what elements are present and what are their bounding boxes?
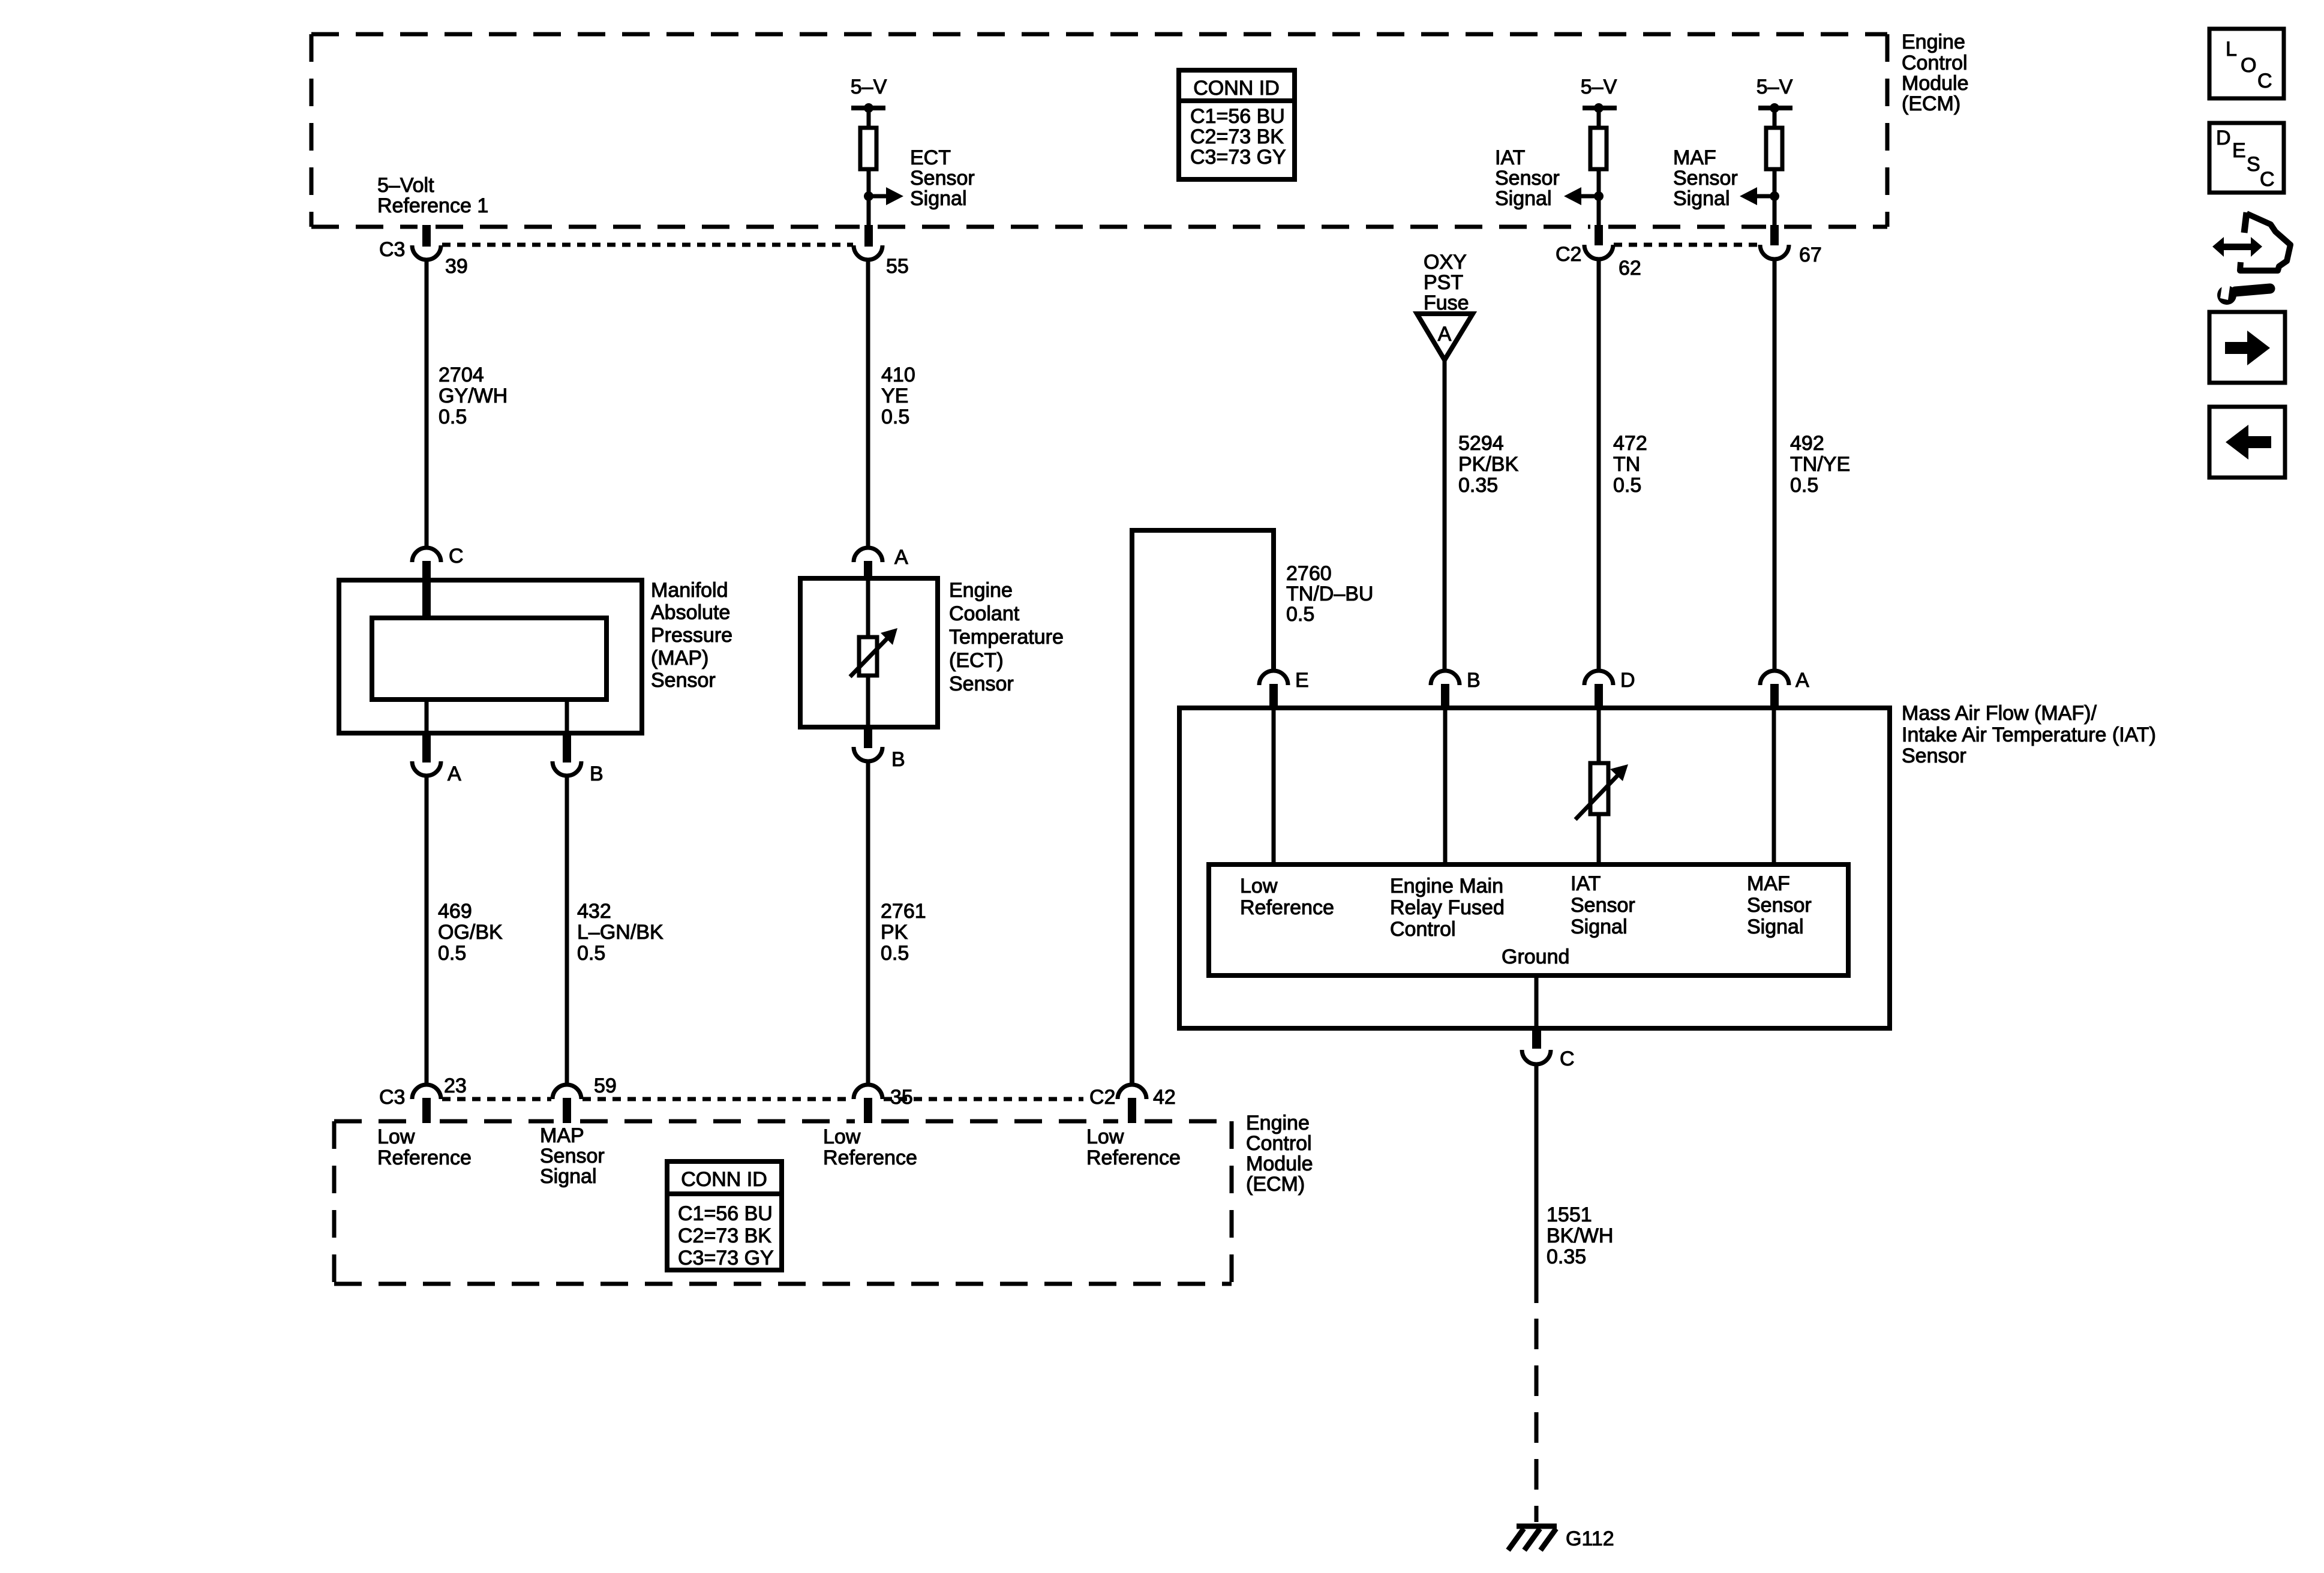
- svg-text:GY/WH: GY/WH: [439, 385, 508, 407]
- label: MAP Sensor Signal (pin 59): [540, 1124, 605, 1188]
- wire 1551 BK/WH: [1536, 1064, 1613, 1303]
- svg-text:A: A: [448, 763, 461, 785]
- svg-text:TN: TN: [1613, 453, 1640, 476]
- node: MAF Sensor Signal arrow: [1673, 146, 1779, 210]
- connector C3 pin 39: [379, 225, 468, 278]
- svg-text:G112: G112: [1566, 1527, 1614, 1550]
- svg-text:Relay Fused: Relay Fused: [1390, 896, 1505, 919]
- svg-text:OXY: OXY: [1424, 251, 1467, 274]
- svg-text:492: 492: [1790, 432, 1824, 455]
- svg-text:Engine: Engine: [1902, 31, 1965, 53]
- 5-V supply rail (ECT): [851, 76, 887, 128]
- connector C3 pin 23: [379, 1074, 467, 1123]
- wire 2704 GY/WH: [427, 260, 508, 548]
- svg-text:5–Volt: 5–Volt: [377, 174, 434, 197]
- svg-text:C: C: [1560, 1047, 1575, 1070]
- svg-text:(MAP): (MAP): [651, 647, 708, 670]
- svg-text:Pressure: Pressure: [651, 624, 732, 647]
- svg-text:Engine: Engine: [949, 579, 1013, 602]
- svg-text:0.5: 0.5: [1613, 474, 1641, 497]
- svg-text:Manifold: Manifold: [651, 579, 728, 602]
- svg-text:A: A: [894, 546, 908, 569]
- svg-text:IAT: IAT: [1495, 146, 1525, 169]
- svg-text:0.35: 0.35: [1547, 1245, 1586, 1268]
- wire IAT pull-up to pin 62: [1597, 169, 1601, 225]
- svg-text:Intake Air Temperature (IAT): Intake Air Temperature (IAT): [1902, 724, 2156, 746]
- svg-text:5–V: 5–V: [851, 76, 887, 98]
- svg-text:TN/YE: TN/YE: [1790, 453, 1850, 476]
- 5-V supply rail (MAF): [1756, 76, 1793, 128]
- MAF/IAT inner terminal box: [1209, 864, 1848, 975]
- icon: LOC box: [2209, 29, 2284, 98]
- svg-text:2704: 2704: [439, 364, 484, 386]
- svg-text:Sensor: Sensor: [1495, 167, 1560, 190]
- svg-text:L–GN/BK: L–GN/BK: [577, 921, 663, 944]
- svg-text:Mass Air Flow (MAF)/: Mass Air Flow (MAF)/: [1902, 702, 2097, 725]
- svg-text:Low: Low: [823, 1125, 861, 1148]
- svg-text:Control: Control: [1902, 52, 1968, 74]
- svg-text:42: 42: [1153, 1086, 1176, 1109]
- svg-text:PK/BK: PK/BK: [1458, 453, 1518, 476]
- svg-text:0.5: 0.5: [1790, 474, 1818, 497]
- icon: forward arrow box: [2209, 312, 2285, 383]
- MAF/IAT sensor connector pin C: [1522, 1029, 1575, 1070]
- svg-text:Module: Module: [1246, 1152, 1313, 1175]
- svg-text:B: B: [590, 763, 603, 785]
- svg-text:0.5: 0.5: [881, 942, 909, 965]
- svg-text:Sensor: Sensor: [1673, 167, 1738, 190]
- svg-text:Engine: Engine: [1246, 1112, 1310, 1134]
- MAP sensor connector pin A: [412, 733, 461, 785]
- harness dotted line 23 to 42: [442, 1097, 1083, 1101]
- svg-text:Reference: Reference: [823, 1146, 917, 1169]
- svg-text:C3: C3: [379, 1086, 405, 1109]
- svg-text:Signal: Signal: [1673, 187, 1730, 210]
- svg-text:55: 55: [886, 255, 909, 278]
- svg-text:PST: PST: [1424, 271, 1463, 294]
- svg-text:C2=73 BK: C2=73 BK: [678, 1224, 771, 1247]
- svg-text:0.5: 0.5: [1286, 603, 1314, 626]
- svg-text:472: 472: [1613, 432, 1647, 455]
- wire MAF pull-up to pin 67: [1773, 169, 1777, 225]
- svg-text:Sensor: Sensor: [1747, 894, 1812, 917]
- resistor (ECT pull-up): [860, 128, 876, 169]
- label: Low Reference (pin 35): [823, 1125, 917, 1169]
- svg-text:0.5: 0.5: [577, 942, 605, 965]
- svg-text:C3: C3: [379, 238, 405, 261]
- svg-text:67: 67: [1799, 244, 1822, 266]
- svg-text:1551: 1551: [1547, 1203, 1592, 1226]
- svg-text:Fuse: Fuse: [1424, 292, 1469, 314]
- svg-text:2760: 2760: [1286, 562, 1332, 585]
- label: Engine Control Module (ECM) bottom: [1246, 1112, 1313, 1196]
- svg-text:MAF: MAF: [1673, 146, 1716, 169]
- svg-text:Coolant: Coolant: [949, 602, 1020, 625]
- svg-text:Low: Low: [1240, 875, 1278, 897]
- svg-text:5–V: 5–V: [1756, 76, 1793, 98]
- MAF/IAT sensor outer box: [1179, 708, 1890, 1028]
- svg-text:Sensor: Sensor: [1902, 745, 1966, 767]
- svg-text:(ECT): (ECT): [949, 649, 1004, 672]
- svg-text:Low: Low: [1086, 1125, 1124, 1148]
- svg-text:TN/D–BU: TN/D–BU: [1286, 583, 1373, 605]
- MAP sensor connector pin C: [412, 545, 464, 620]
- wire 2760 TN/D-BU (42 to E): [1132, 530, 1373, 1085]
- label: Low Reference (pin 42): [1086, 1125, 1181, 1169]
- svg-text:C3=73 GY: C3=73 GY: [678, 1247, 774, 1269]
- svg-text:D: D: [2216, 127, 2231, 149]
- resistor (IAT pull-up): [1590, 128, 1607, 169]
- CONN ID table (top): [1179, 70, 1295, 179]
- label: Low Reference (pin 23): [377, 1125, 472, 1169]
- svg-text:Sensor: Sensor: [910, 167, 975, 190]
- svg-text:(ECM): (ECM): [1246, 1173, 1305, 1196]
- ground symbol G112: [1508, 1526, 1614, 1550]
- svg-text:C2=73 BK: C2=73 BK: [1190, 125, 1284, 148]
- svg-text:OG/BK: OG/BK: [438, 921, 503, 944]
- svg-text:Low: Low: [377, 1125, 415, 1148]
- svg-text:PK: PK: [881, 921, 908, 944]
- svg-text:23: 23: [444, 1074, 467, 1097]
- svg-text:5–V: 5–V: [1581, 76, 1617, 98]
- svg-text:Sensor: Sensor: [949, 673, 1014, 695]
- svg-text:MAP: MAP: [540, 1124, 584, 1147]
- ECT sensor connector pin A: [854, 546, 908, 581]
- harness dotted line 62 to 67: [1614, 243, 1759, 247]
- node: IAT Sensor Signal arrow: [1495, 146, 1604, 210]
- svg-text:C: C: [2257, 70, 2272, 92]
- wire 469 OG/BK: [427, 776, 503, 1085]
- label: Manifold Absolute Pressure (MAP) Sensor: [651, 579, 732, 692]
- net label: 5-Volt Reference 1: [377, 174, 488, 217]
- wire 410 YE: [868, 260, 915, 548]
- wire 2761 PK: [868, 761, 926, 1085]
- svg-text:C2: C2: [1089, 1086, 1115, 1109]
- connector pin 55: [854, 225, 909, 278]
- resistor (MAF pull-up): [1766, 128, 1782, 169]
- wire 432 L-GN/BK: [567, 776, 663, 1085]
- svg-text:59: 59: [594, 1074, 617, 1097]
- svg-text:Reference 1: Reference 1: [377, 194, 488, 217]
- svg-text:CONN ID: CONN ID: [1193, 77, 1280, 100]
- svg-text:(ECM): (ECM): [1902, 92, 1960, 115]
- svg-text:C1=56 BU: C1=56 BU: [1190, 105, 1285, 128]
- 5-V supply rail (IAT): [1581, 76, 1617, 128]
- harness dotted line C3 to 55: [442, 243, 853, 247]
- svg-text:YE: YE: [881, 385, 908, 407]
- connector C2 pin 42: [1089, 1085, 1176, 1123]
- labels inside MAF/IAT inner box: [1240, 872, 1812, 968]
- svg-text:S: S: [2247, 153, 2260, 176]
- svg-text:ECT: ECT: [910, 146, 951, 169]
- svg-text:Reference: Reference: [1240, 896, 1334, 919]
- connector pin 59: [553, 1074, 617, 1123]
- connector C2 pin 62: [1556, 225, 1641, 280]
- wire 1551 dashed segment to ground: [1535, 1319, 1539, 1522]
- wire ECT pull-up to pin 55: [867, 169, 871, 225]
- svg-text:0.35: 0.35: [1458, 474, 1498, 497]
- svg-text:B: B: [1467, 669, 1481, 692]
- svg-text:469: 469: [438, 900, 472, 923]
- svg-text:Sensor: Sensor: [540, 1145, 605, 1167]
- svg-text:Engine Main: Engine Main: [1390, 875, 1503, 897]
- svg-text:0.5: 0.5: [439, 406, 467, 428]
- wire 5294 PK/BK: [1445, 360, 1518, 671]
- label: Engine Control Module (ECM): [1902, 31, 1969, 115]
- svg-text:C: C: [2260, 168, 2275, 191]
- fuse symbol OXY PST Fuse A: [1417, 251, 1473, 360]
- svg-text:C1=56 BU: C1=56 BU: [678, 1202, 773, 1225]
- thermistor symbol (IAT): [1575, 763, 1628, 819]
- icon: back arrow box: [2209, 407, 2285, 478]
- svg-text:432: 432: [577, 900, 611, 923]
- svg-text:CONN ID: CONN ID: [681, 1168, 767, 1191]
- svg-text:Signal: Signal: [1571, 915, 1628, 938]
- svg-text:A: A: [1795, 669, 1809, 692]
- svg-text:2761: 2761: [881, 900, 926, 923]
- svg-text:Reference: Reference: [377, 1146, 472, 1169]
- wires inside MAF/IAT box: [1274, 709, 1774, 864]
- svg-text:Sensor: Sensor: [651, 669, 716, 692]
- svg-text:39: 39: [445, 255, 468, 278]
- svg-text:E: E: [2232, 139, 2246, 162]
- svg-text:D: D: [1620, 669, 1635, 692]
- svg-text:IAT: IAT: [1571, 872, 1601, 895]
- svg-text:Control: Control: [1390, 918, 1456, 941]
- ECM module dashed box (top): [311, 34, 1887, 227]
- label: Mass Air Flow (MAF)/ Intake Air Temperature (IAT) Sensor: [1902, 702, 2156, 767]
- svg-text:A: A: [1438, 323, 1452, 346]
- svg-text:B: B: [891, 748, 905, 771]
- svg-text:62: 62: [1619, 257, 1641, 280]
- svg-text:Signal: Signal: [540, 1165, 597, 1188]
- svg-text:E: E: [1295, 669, 1309, 692]
- connector pin 67: [1760, 225, 1822, 266]
- svg-text:C3=73 GY: C3=73 GY: [1190, 146, 1286, 169]
- MAP sensor connector pin B: [553, 733, 603, 785]
- thermistor symbol (ECT): [850, 628, 897, 677]
- svg-text:BK/WH: BK/WH: [1547, 1224, 1613, 1247]
- svg-text:Temperature: Temperature: [949, 626, 1064, 649]
- svg-text:L: L: [2226, 38, 2237, 61]
- MAF/IAT sensor connector pin E: [1259, 669, 1309, 709]
- svg-text:Sensor: Sensor: [1571, 894, 1635, 917]
- svg-text:Signal: Signal: [910, 187, 967, 210]
- MAP sensor box: [339, 580, 642, 733]
- icon: connector service glyph (arrow, part outline, wrench): [2212, 212, 2290, 305]
- MAF/IAT sensor connector pin D: [1584, 669, 1635, 709]
- ECM module dashed box (bottom): [334, 1121, 1232, 1284]
- CONN ID table (bottom): [667, 1161, 782, 1270]
- node: ECT Sensor Signal arrow: [864, 146, 975, 210]
- svg-text:Module: Module: [1902, 72, 1969, 95]
- svg-text:C2: C2: [1556, 243, 1581, 266]
- label: Engine Coolant Temperature (ECT) Sensor: [949, 579, 1064, 695]
- ECT sensor connector pin B: [854, 727, 905, 771]
- icon: DESC box: [2209, 123, 2284, 193]
- svg-text:Signal: Signal: [1495, 187, 1552, 210]
- svg-text:0.5: 0.5: [438, 942, 466, 965]
- svg-text:Reference: Reference: [1086, 1146, 1181, 1169]
- svg-text:410: 410: [881, 364, 915, 386]
- svg-text:MAF: MAF: [1747, 872, 1790, 895]
- svg-text:Absolute: Absolute: [651, 601, 730, 624]
- wire 472 TN: [1599, 259, 1647, 671]
- ground wire inside MAF/IAT box: [1535, 975, 1539, 1026]
- wire 492 TN/YE: [1774, 259, 1850, 671]
- ECT sensor box: [800, 578, 938, 727]
- MAF/IAT sensor connector pin B: [1431, 669, 1481, 709]
- svg-text:Ground: Ground: [1502, 945, 1569, 968]
- svg-text:O: O: [2241, 54, 2256, 77]
- svg-text:C: C: [449, 545, 464, 568]
- MAF/IAT sensor connector pin A: [1760, 669, 1809, 709]
- svg-text:5294: 5294: [1458, 432, 1504, 455]
- svg-text:Signal: Signal: [1747, 915, 1804, 938]
- svg-text:0.5: 0.5: [881, 406, 909, 428]
- connector pin 35: [854, 1085, 913, 1123]
- svg-text:Control: Control: [1246, 1132, 1312, 1155]
